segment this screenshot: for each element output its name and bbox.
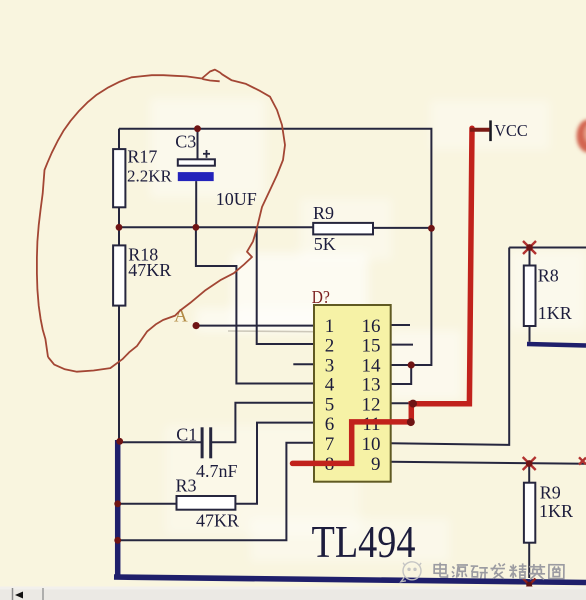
svg-text:R8: R8 <box>538 266 559 286</box>
svg-text:2: 2 <box>325 336 335 357</box>
svg-text:14: 14 <box>362 355 382 376</box>
svg-text:16: 16 <box>362 316 381 337</box>
svg-text:R9: R9 <box>540 483 561 503</box>
svg-text:12: 12 <box>362 395 381 416</box>
svg-text:C3: C3 <box>175 132 196 152</box>
svg-text:5: 5 <box>325 395 335 416</box>
svg-text:6: 6 <box>325 414 335 435</box>
svg-text:R9: R9 <box>313 203 334 223</box>
svg-text:TL494: TL494 <box>312 516 416 567</box>
svg-text:A: A <box>174 306 188 327</box>
svg-text:R17: R17 <box>127 147 157 167</box>
svg-text:C1: C1 <box>176 425 197 445</box>
svg-text:4: 4 <box>325 375 335 396</box>
svg-text:10: 10 <box>362 434 381 455</box>
svg-text:4.7nF: 4.7nF <box>196 461 238 481</box>
svg-text:5K: 5K <box>314 234 336 254</box>
svg-text:15: 15 <box>362 336 381 357</box>
svg-text:D?: D? <box>312 287 330 307</box>
svg-text:1KR: 1KR <box>538 303 572 323</box>
svg-text:2.2KR: 2.2KR <box>127 166 173 185</box>
svg-text:47KR: 47KR <box>128 260 171 280</box>
svg-text:7: 7 <box>325 434 335 455</box>
svg-text:1KR: 1KR <box>539 501 573 521</box>
svg-text:1: 1 <box>325 316 335 337</box>
svg-text:47KR: 47KR <box>196 511 239 531</box>
svg-text:9: 9 <box>371 454 381 475</box>
svg-text:3: 3 <box>325 355 335 376</box>
svg-text:VCC: VCC <box>494 121 528 140</box>
svg-text:R3: R3 <box>176 476 197 496</box>
svg-text:10UF: 10UF <box>216 189 257 209</box>
svg-text:13: 13 <box>362 375 381 396</box>
